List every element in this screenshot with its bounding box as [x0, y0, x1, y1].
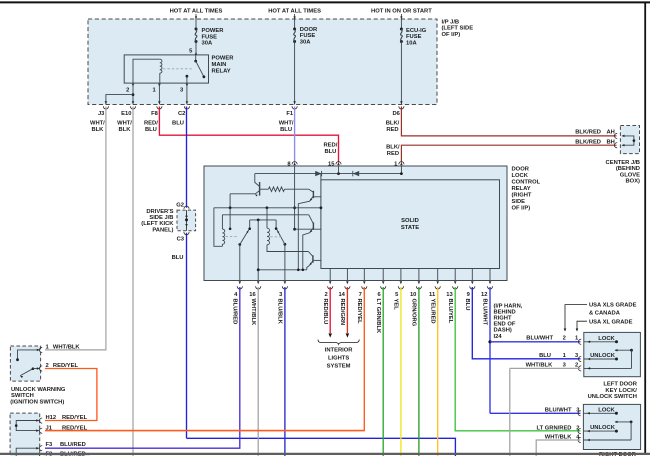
- svg-text:F3: F3: [46, 442, 54, 448]
- svg-text:I24: I24: [494, 334, 503, 340]
- svg-text:WHT/BLK: WHT/BLK: [250, 299, 256, 327]
- svg-text:D6: D6: [392, 111, 400, 117]
- svg-text:SWITCH: SWITCH: [11, 393, 34, 399]
- svg-text:BLU/WHT: BLU/WHT: [545, 408, 572, 414]
- svg-text:BLU/BLK: BLU/BLK: [277, 299, 283, 325]
- svg-text:AH: AH: [607, 129, 615, 135]
- svg-text:HOT AT ALL TIMES: HOT AT ALL TIMES: [170, 9, 223, 15]
- svg-text:LOCK: LOCK: [512, 173, 529, 179]
- svg-text:2: 2: [126, 88, 129, 94]
- svg-text:SOLID: SOLID: [401, 218, 419, 224]
- svg-text:OF I/P): OF I/P): [512, 206, 531, 212]
- svg-text:(LEFT KICK: (LEFT KICK: [141, 221, 174, 227]
- svg-text:WHT/: WHT/: [117, 121, 132, 127]
- svg-text:UNLOCK SWITCH: UNLOCK SWITCH: [588, 394, 637, 400]
- svg-text:2: 2: [575, 363, 578, 369]
- svg-text:SIDE J/B: SIDE J/B: [149, 215, 173, 221]
- svg-text:DOOR: DOOR: [512, 167, 530, 173]
- svg-text:E10: E10: [121, 111, 131, 117]
- svg-text:BLU/RED: BLU/RED: [60, 442, 86, 448]
- svg-text:C3: C3: [177, 236, 185, 242]
- svg-text:BH: BH: [607, 140, 615, 146]
- svg-text:POWER: POWER: [212, 56, 235, 62]
- svg-text:MAIN: MAIN: [212, 62, 227, 68]
- svg-text:7: 7: [359, 292, 362, 298]
- svg-text:2: 2: [563, 336, 566, 342]
- svg-text:10: 10: [410, 292, 416, 298]
- svg-text:RED/YEL: RED/YEL: [62, 415, 88, 421]
- svg-text:BLU/YEL: BLU/YEL: [447, 299, 453, 324]
- svg-text:HOT IN ON OR START: HOT IN ON OR START: [371, 9, 432, 15]
- svg-text:CENTER J/B: CENTER J/B: [606, 160, 640, 166]
- svg-text:RELAY: RELAY: [212, 69, 231, 75]
- svg-text:WHT/BLK: WHT/BLK: [526, 363, 554, 369]
- svg-text:13: 13: [446, 292, 453, 298]
- svg-text:KEY LOCK/: KEY LOCK/: [605, 388, 637, 394]
- svg-text:I/P J/B: I/P J/B: [442, 20, 460, 26]
- svg-text:BLK/: BLK/: [386, 144, 400, 150]
- svg-text:STATE: STATE: [401, 225, 419, 231]
- svg-text:G2: G2: [176, 202, 184, 208]
- svg-text:WHT/: WHT/: [90, 121, 105, 127]
- svg-text:BLU: BLU: [172, 255, 184, 261]
- svg-text:BLK/: BLK/: [386, 121, 400, 127]
- svg-text:BLU: BLU: [145, 127, 157, 133]
- svg-text:(LEFT SIDE: (LEFT SIDE: [442, 26, 474, 32]
- svg-text:FUSE: FUSE: [202, 34, 218, 40]
- svg-text:DRIVER'S: DRIVER'S: [146, 209, 173, 215]
- svg-text:30A: 30A: [202, 41, 213, 47]
- svg-text:RED/: RED/: [323, 142, 337, 148]
- svg-text:J3: J3: [98, 111, 105, 117]
- svg-text:FUSE: FUSE: [406, 34, 422, 40]
- svg-text:RED/GRN: RED/GRN: [339, 299, 345, 326]
- svg-text:BLU: BLU: [172, 121, 184, 127]
- svg-text:(BEHIND: (BEHIND: [616, 166, 640, 172]
- svg-text:BLU/WHT: BLU/WHT: [526, 336, 553, 342]
- svg-text:LOCK: LOCK: [598, 407, 615, 413]
- svg-text:RELAY: RELAY: [512, 186, 531, 192]
- svg-text:BLK/RED: BLK/RED: [575, 140, 601, 146]
- svg-text:SYSTEM: SYSTEM: [327, 364, 351, 370]
- svg-text:SIDE: SIDE: [512, 199, 526, 205]
- svg-text:UNLOCK: UNLOCK: [590, 425, 616, 431]
- svg-text:BLU: BLU: [324, 149, 336, 155]
- svg-text:GRN/ORG: GRN/ORG: [411, 299, 417, 327]
- svg-text:LIGHTS: LIGHTS: [328, 356, 349, 362]
- svg-text:ECU-IG: ECU-IG: [406, 28, 427, 34]
- svg-text:30A: 30A: [300, 39, 311, 45]
- svg-text:PANEL): PANEL): [152, 227, 173, 233]
- svg-text:H12: H12: [46, 415, 57, 421]
- svg-text:BLU: BLU: [464, 299, 470, 311]
- svg-text:BLU/WHT: BLU/WHT: [482, 299, 488, 326]
- svg-text:15: 15: [328, 161, 335, 167]
- svg-text:BLK: BLK: [119, 127, 132, 133]
- svg-text:11: 11: [429, 292, 436, 298]
- svg-text:2: 2: [576, 425, 579, 431]
- svg-text:UNLOCK: UNLOCK: [590, 353, 616, 359]
- svg-text:RED/BLU: RED/BLU: [322, 299, 328, 325]
- svg-text:OF I/P): OF I/P): [442, 32, 461, 38]
- svg-text:USA XL GRADE: USA XL GRADE: [589, 319, 633, 325]
- svg-text:BLU: BLU: [280, 127, 292, 133]
- svg-text:BLK/RED: BLK/RED: [575, 129, 601, 135]
- svg-text:RED: RED: [387, 151, 399, 157]
- svg-text:DOOR: DOOR: [300, 27, 318, 33]
- svg-text:YEL/RED: YEL/RED: [429, 299, 435, 324]
- svg-text:BOX): BOX): [626, 179, 641, 185]
- svg-text:& CANADA: & CANADA: [589, 310, 621, 316]
- svg-text:BLK: BLK: [91, 127, 104, 133]
- svg-text:(IGNITION SWITCH): (IGNITION SWITCH): [10, 399, 64, 405]
- svg-text:16: 16: [249, 292, 256, 298]
- svg-text:WHT/BLK: WHT/BLK: [53, 344, 81, 350]
- svg-text:USA XLS GRADE: USA XLS GRADE: [589, 302, 637, 308]
- svg-text:BLU/RED: BLU/RED: [231, 299, 237, 325]
- svg-text:14: 14: [338, 292, 345, 298]
- svg-text:F8: F8: [151, 111, 159, 117]
- svg-text:BLU: BLU: [539, 353, 551, 359]
- svg-text:INTERIOR: INTERIOR: [325, 347, 354, 353]
- svg-text:GLOVE: GLOVE: [620, 172, 640, 178]
- svg-text:F1: F1: [286, 111, 294, 117]
- svg-text:2: 2: [324, 292, 327, 298]
- svg-text:WHT/: WHT/: [279, 121, 294, 127]
- svg-text:RED/YEL: RED/YEL: [356, 299, 362, 325]
- svg-text:(RIGHT: (RIGHT: [512, 193, 532, 199]
- svg-text:CONTROL: CONTROL: [512, 180, 541, 186]
- svg-text:UNLOCK WARNING: UNLOCK WARNING: [11, 387, 66, 393]
- svg-text:12: 12: [481, 292, 487, 298]
- svg-text:C2: C2: [178, 111, 185, 117]
- svg-text:POWER: POWER: [202, 28, 225, 34]
- svg-text:YEL: YEL: [393, 299, 399, 311]
- svg-text:FUSE: FUSE: [300, 33, 316, 39]
- svg-text:RED: RED: [386, 127, 398, 133]
- svg-text:RED/: RED/: [144, 121, 158, 127]
- svg-text:LEFT DOOR: LEFT DOOR: [603, 382, 637, 388]
- svg-text:LT GRN/BLK: LT GRN/BLK: [375, 299, 381, 334]
- svg-text:LT GRN/RED: LT GRN/RED: [537, 425, 572, 431]
- svg-text:HOT AT ALL TIMES: HOT AT ALL TIMES: [268, 9, 321, 15]
- svg-text:LOCK: LOCK: [598, 336, 615, 342]
- svg-text:10A: 10A: [406, 40, 417, 46]
